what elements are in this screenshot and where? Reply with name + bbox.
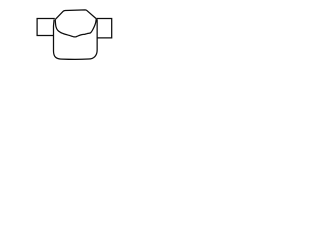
front rim arc (55, 19, 96, 37)
left mounting tab (37, 19, 55, 36)
can body sides and bottom (54, 19, 98, 59)
can top face (55, 10, 96, 19)
right mounting tab (96, 19, 111, 38)
